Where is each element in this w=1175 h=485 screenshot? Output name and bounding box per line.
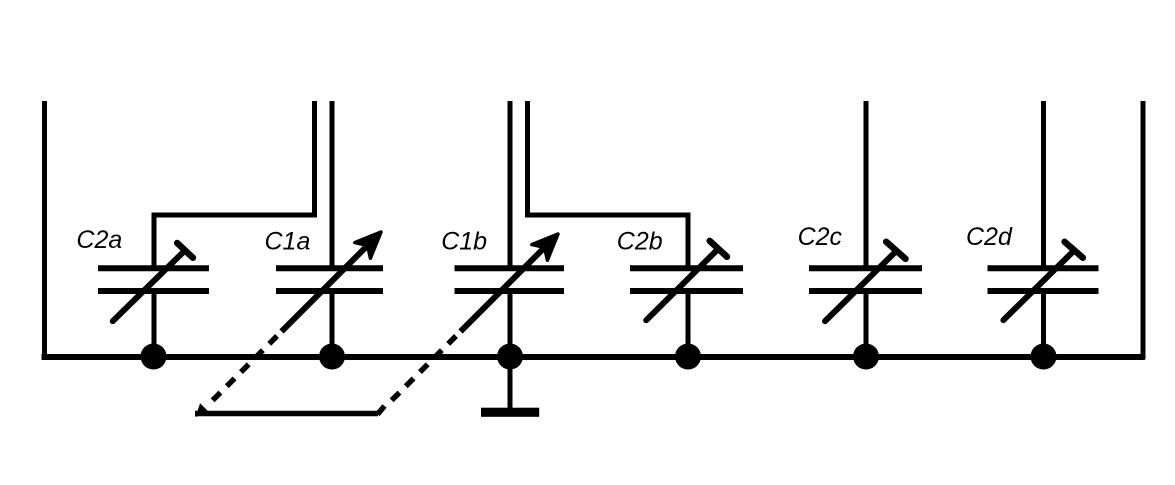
svg-text:C1b: C1b bbox=[441, 228, 487, 256]
capacitor C1a variable arrow bbox=[282, 232, 382, 332]
wire C2d bottom to bus bbox=[1041, 291, 1046, 357]
wire right edge vertical bbox=[1141, 101, 1146, 359]
capacitor C2b trimmer arm bbox=[646, 241, 727, 320]
capacitor C1b variable arrow bbox=[461, 234, 559, 332]
junction dot C2a bbox=[141, 344, 167, 370]
wire bottom bus bbox=[42, 354, 1146, 360]
ground bbox=[481, 408, 539, 417]
wire C1b bottom to bus bbox=[508, 291, 513, 357]
capacitor C2d trimmer arm bbox=[1003, 242, 1082, 320]
svg-text:C2d: C2d bbox=[966, 223, 1013, 251]
wire C2a bottom to bus bbox=[152, 291, 157, 357]
ground wire stub bbox=[508, 357, 513, 409]
capacitor C2a trimmer arm bbox=[113, 243, 193, 321]
wire C2c bottom to bus bbox=[864, 291, 869, 357]
junction dot C1b bbox=[497, 344, 523, 370]
wire C1b stator feed from top to C2b top (L-shape) bbox=[528, 101, 689, 268]
wire C1a top feed bbox=[330, 101, 335, 267]
gang link right stub bbox=[378, 406, 385, 414]
capacitor C1b plates bbox=[455, 268, 565, 291]
capacitor C2b plates bbox=[630, 268, 743, 291]
wire left edge vertical bbox=[42, 101, 47, 359]
junction dot C2d bbox=[1031, 344, 1057, 370]
wire C1a stator feed from top to C2a top (L-shape) bbox=[154, 101, 315, 268]
gang link dashed right segment bbox=[388, 336, 456, 404]
gang link bottom bar bbox=[195, 411, 378, 417]
junction dot C2c bbox=[853, 344, 879, 370]
wire C1b top feed bbox=[508, 101, 513, 267]
wire C1a bottom to bus bbox=[330, 291, 335, 357]
wire C2d top feed bbox=[1041, 101, 1046, 267]
svg-text:C1a: C1a bbox=[265, 227, 311, 255]
gang link left arrowhead bbox=[196, 403, 210, 417]
svg-text:C2a: C2a bbox=[76, 226, 122, 254]
svg-text:C2c: C2c bbox=[798, 223, 843, 251]
svg-text:C2b: C2b bbox=[617, 228, 663, 256]
capacitor C1a plates bbox=[276, 268, 383, 291]
wire C2c top feed bbox=[864, 101, 869, 267]
junction dot C1a bbox=[319, 344, 345, 370]
capacitor C2a plates bbox=[98, 268, 209, 291]
capacitor C2c trimmer arm bbox=[825, 242, 906, 321]
capacitor C2d plates bbox=[988, 268, 1099, 291]
capacitor C2c plates bbox=[809, 268, 922, 291]
wire C2b bottom to bus bbox=[686, 291, 691, 357]
junction dot C2b bbox=[675, 344, 701, 370]
gang link dashed left segment bbox=[209, 336, 277, 404]
